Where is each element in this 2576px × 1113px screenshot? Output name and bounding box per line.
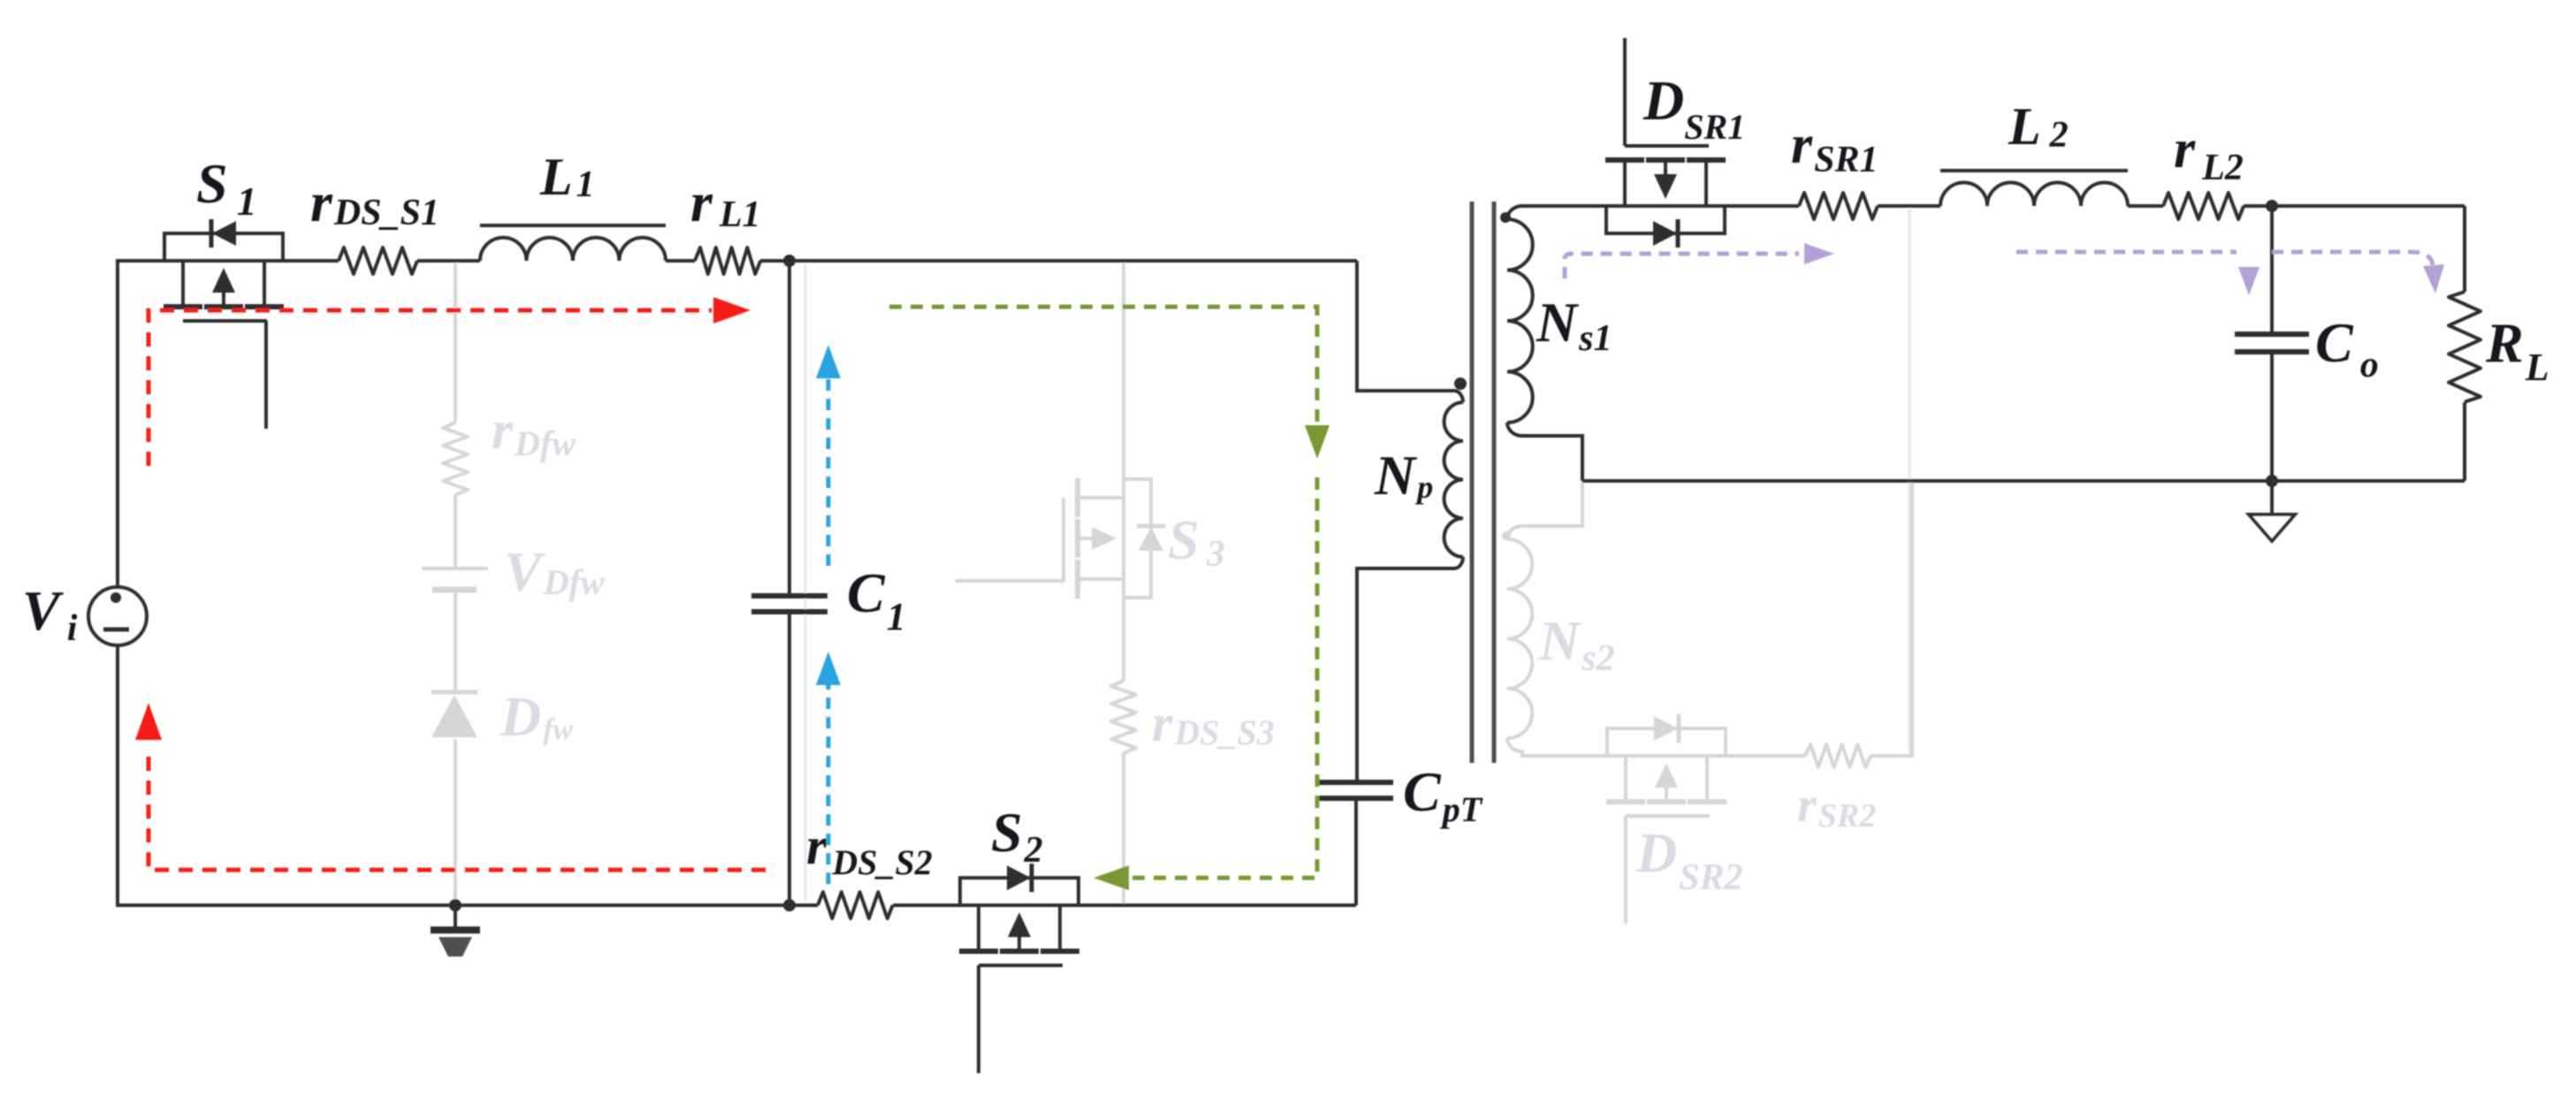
resistor r_DS_S1 bbox=[339, 248, 417, 274]
transistor S3 bbox=[956, 478, 1165, 598]
wire C1 branch upper bbox=[788, 261, 791, 596]
blue current arrow lower bbox=[827, 685, 831, 884]
wire S3 branch vertical bbox=[1122, 263, 1125, 681]
wire L2 to r_L2 bbox=[2128, 204, 2163, 208]
wire r_DS_S2 to S2 bbox=[893, 903, 959, 907]
inductor Ns1 winding bbox=[1507, 206, 1522, 219]
wire RL top bbox=[2463, 206, 2466, 292]
node junction Co bottom bbox=[2266, 475, 2278, 487]
svg-text:CpT: CpT bbox=[1403, 760, 1483, 829]
purple current arrow RL bbox=[2272, 252, 2433, 265]
wire Np bottom lead bbox=[1357, 557, 1463, 782]
source Vi bbox=[88, 587, 147, 645]
svg-text:rL2: rL2 bbox=[2174, 119, 2244, 188]
svg-text:rDS_S3: rDS_S3 bbox=[1152, 694, 1275, 752]
capacitor Co bbox=[2235, 332, 2309, 337]
ground primary bbox=[453, 905, 457, 928]
wire r_SR1 to L2 bbox=[1878, 204, 1940, 208]
wire left rail bottom bbox=[118, 644, 455, 905]
svg-text:S3: S3 bbox=[1168, 508, 1225, 575]
wire top rail to Np bbox=[1357, 261, 1463, 402]
wire RL bottom bbox=[2463, 402, 2466, 481]
svg-text:rDS_S1: rDS_S1 bbox=[310, 171, 439, 233]
wire secondary bottom rail bbox=[1582, 479, 2465, 483]
wire r_L2 to RL corner bbox=[2244, 204, 2465, 208]
svg-text:Co: Co bbox=[2315, 311, 2379, 385]
svg-text:VDfw: VDfw bbox=[504, 540, 605, 603]
purple current arrow Co bbox=[2016, 250, 2237, 255]
svg-text:Ns1: Ns1 bbox=[1536, 291, 1612, 359]
wire left rail top bbox=[118, 261, 165, 586]
transformer core line 1 bbox=[1470, 202, 1475, 763]
svg-text:DSR2: DSR2 bbox=[1635, 821, 1743, 898]
svg-text:L2: L2 bbox=[2008, 97, 2069, 156]
svg-text:RL: RL bbox=[2485, 311, 2549, 389]
resistor r_L2 bbox=[2163, 193, 2244, 219]
transistor S1 bbox=[164, 233, 283, 261]
ground secondary bbox=[2270, 481, 2274, 515]
blue current arrow upper bbox=[827, 378, 831, 566]
capacitor C1 bbox=[751, 593, 827, 598]
node junction ground primary bbox=[449, 899, 461, 911]
wire r_SR2 up to rail bbox=[1871, 481, 1912, 756]
inductor Ns2 winding bbox=[1507, 539, 1532, 738]
inductor Np winding bbox=[1444, 402, 1463, 557]
svg-text:rDfw: rDfw bbox=[492, 400, 575, 463]
resistor r_L1 bbox=[695, 248, 760, 274]
wire D_SR1 to r_SR1 bbox=[1724, 204, 1799, 208]
svg-text:rSR1: rSR1 bbox=[1791, 115, 1879, 180]
wire Ns2 top lead bbox=[1507, 481, 1582, 539]
wire Co branch upper bbox=[2270, 206, 2274, 334]
wire faint vertical artifact near L2 bbox=[1909, 208, 1911, 754]
node Ns2 dot bbox=[1502, 531, 1511, 540]
green current loop bottom bbox=[1129, 477, 1317, 878]
svg-text:Dfw: Dfw bbox=[499, 685, 574, 748]
svg-text:rSR2: rSR2 bbox=[1797, 778, 1876, 835]
transistor D_SR2 bbox=[1607, 728, 1726, 756]
wire Ns1 bottom lead bbox=[1522, 436, 1582, 481]
resistor r_DS_S2 bbox=[818, 892, 893, 919]
wire Ns1 to D_SR1 bbox=[1522, 204, 1607, 208]
wire CpT to bottom rail bbox=[1354, 798, 1358, 905]
red current loop top arrow bbox=[149, 310, 712, 466]
svg-text:S1: S1 bbox=[196, 152, 257, 224]
svg-text:C1: C1 bbox=[847, 561, 906, 638]
svg-text:rDS_S2: rDS_S2 bbox=[806, 817, 933, 882]
transistor D_SR1 bbox=[1606, 206, 1725, 233]
resistor RL bbox=[2449, 292, 2481, 402]
wire Dfw branch vertical bbox=[453, 263, 457, 423]
inductor L1 bbox=[480, 238, 666, 261]
wire Co branch lower bbox=[2270, 352, 2274, 481]
svg-text:rL1: rL1 bbox=[690, 171, 761, 235]
diode D_fw bbox=[431, 695, 477, 737]
resistor r_SR2 bbox=[1805, 744, 1871, 767]
wire Ns2 bottom lead bbox=[1507, 738, 1607, 756]
capacitor CpT bbox=[1319, 780, 1393, 785]
node junction C1 top bbox=[783, 255, 796, 267]
transistor S2 bbox=[960, 878, 1078, 905]
wire D_SR2 to r_SR2 bbox=[1725, 754, 1805, 758]
wire ground to r_DS_S2 bbox=[455, 903, 818, 907]
svg-text:S2: S2 bbox=[991, 801, 1043, 871]
node junction C1 bottom bbox=[783, 899, 796, 911]
inductor L2 bbox=[1940, 183, 2128, 207]
resistor r_DS_S3 bbox=[1111, 681, 1136, 753]
svg-text:Np: Np bbox=[1374, 444, 1433, 507]
node Ns1 dot bbox=[1500, 212, 1511, 223]
wire r_L1 to corner bbox=[760, 259, 1357, 263]
transformer core line 2 bbox=[1492, 202, 1497, 763]
purple current arrow Ns1 bbox=[1565, 254, 1799, 278]
svg-text:Ns2: Ns2 bbox=[1538, 609, 1615, 679]
resistor r_SR1 bbox=[1799, 193, 1878, 219]
green current loop top bbox=[889, 307, 1317, 423]
node Np dot bbox=[1454, 377, 1467, 390]
red current loop bottom-left arrow bbox=[149, 751, 766, 870]
wire S1 to r_DS_S1 bbox=[283, 259, 339, 263]
voltage source V_Dfw bbox=[422, 567, 488, 570]
wire S2 to CpT corner bbox=[1079, 903, 1356, 907]
wire C1 branch lower bbox=[788, 612, 791, 905]
resistor r_Dfw bbox=[443, 423, 468, 495]
wire r_DS_S1 to L1 bbox=[417, 259, 480, 263]
node junction Co top bbox=[2266, 200, 2278, 212]
svg-text:Vi: Vi bbox=[22, 579, 78, 649]
svg-text:L1: L1 bbox=[539, 148, 595, 206]
wire L1 to r_L1 bbox=[666, 259, 695, 263]
svg-text:DSR1: DSR1 bbox=[1642, 69, 1745, 147]
wire faint vertical artifact near C1 bbox=[804, 263, 807, 902]
